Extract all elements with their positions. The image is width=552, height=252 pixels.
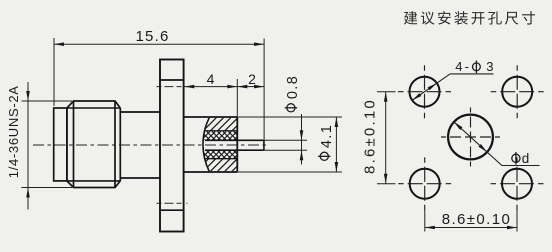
dielectric hatching upper band <box>196 118 267 131</box>
dimension phi4.1: dimension line with arrows <box>335 117 339 172</box>
flange mounting-hole centerline (top) <box>157 86 185 88</box>
dielectric crosshatch band above pin <box>196 132 258 140</box>
label 4-phi3 with leader to top-left hole <box>412 59 493 101</box>
main horizontal centerline of connector <box>33 144 267 146</box>
connector hex nut body with chamfered corners <box>67 101 120 188</box>
mounting hole top-right (phi3) <box>491 65 544 118</box>
dimension phi0.8: arrows <box>300 114 304 165</box>
mounting hole top-left (phi3) <box>398 65 451 118</box>
dimension 15.6: dimension line with arrows <box>54 42 264 46</box>
mounting hole bottom-right (phi3) <box>491 157 544 210</box>
svg-text:d: d <box>522 151 530 166</box>
thread dimension: extension lines <box>22 101 73 188</box>
center contact pin <box>205 140 264 150</box>
dimension 8.6 vertical: extension lines <box>377 92 396 184</box>
dimension 4: dimension line with arrows <box>184 79 237 117</box>
title: recommended mounting hole dimensions (CJK glyph paths) <box>404 11 535 25</box>
svg-text:4-: 4- <box>455 59 471 74</box>
phi4.1 label (rotated) <box>318 124 335 161</box>
dimension 2: dimension line with arrows <box>237 85 264 89</box>
svg-text:15.6: 15.6 <box>136 28 170 45</box>
label phi-d with leader to center hole <box>454 122 540 166</box>
dimension phi4.1: extension lines <box>237 117 342 172</box>
center hole (phi d) <box>441 108 500 167</box>
connector mating face rectangle <box>54 108 67 181</box>
dielectric hatching lower band <box>196 159 266 172</box>
dimension 8.6 horizontal: dimension line with arrows <box>425 226 517 230</box>
flange mounting-hole centerline (bottom) <box>157 202 188 204</box>
dimension phi0.8: extension lines from pin <box>264 140 307 150</box>
dimension 8.6 horizontal: extension lines <box>425 210 517 232</box>
mounting hole bottom-left (phi3) <box>398 157 451 210</box>
dimension 15.6: extension lines <box>54 38 264 150</box>
hatch band boundary lines <box>196 131 240 159</box>
svg-text:1/4-36UNS-2A: 1/4-36UNS-2A <box>6 85 21 178</box>
svg-text:8.6±0.10: 8.6±0.10 <box>362 98 379 174</box>
svg-text:4: 4 <box>207 71 215 87</box>
thread dimension: dimension line with outside arrows <box>26 82 30 210</box>
svg-text:4.1: 4.1 <box>319 124 335 148</box>
square mounting flange (side view) <box>160 60 184 232</box>
svg-text:3: 3 <box>486 59 493 74</box>
PTFE dielectric dome face arc <box>203 118 209 172</box>
phi0.8 label (rotated) <box>285 75 302 112</box>
dimension 8.6 vertical: dimension line with arrows <box>384 92 388 184</box>
barrel section between hex and flange <box>120 112 160 178</box>
svg-text:8.6±0.10: 8.6±0.10 <box>442 211 511 228</box>
rear insulator barrel outline <box>184 117 238 172</box>
dielectric crosshatch band below pin <box>196 151 258 159</box>
svg-text:2: 2 <box>248 71 256 87</box>
svg-text:0.8: 0.8 <box>285 75 301 99</box>
